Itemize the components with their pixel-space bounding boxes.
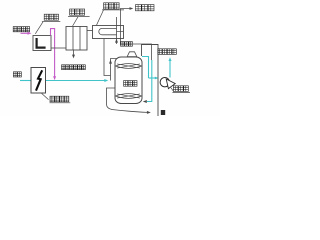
leader line to filter label — [42, 93, 49, 99]
cooling water pipe 1 (up arrow) — [115, 17, 118, 44]
cooling water top label — [136, 5, 142, 11]
purified air outlet (cyan, up arrow) — [169, 57, 172, 77]
dryer box B2 with stripes — [66, 27, 87, 51]
cyan branch to fan with arrow — [149, 77, 159, 80]
small dark block bottom right — [161, 110, 165, 115]
waste gas label — [13, 72, 17, 77]
dryer label (underlined) — [68, 9, 90, 17]
riser into tower top — [109, 59, 117, 81]
lower lens bed — [116, 94, 142, 99]
condenser header divider — [117, 31, 124, 33]
cyan tower top loop — [142, 57, 149, 79]
leader to fan label — [171, 88, 174, 92]
condenser inner tube — [99, 28, 117, 34]
wire dryer to condenser — [87, 30, 93, 32]
compressed air inlet label — [13, 27, 17, 32]
cooling water supply elbow — [133, 44, 152, 60]
filter label (underlined) — [50, 96, 71, 103]
filter box — [31, 68, 46, 94]
tower bottom drain curve — [107, 88, 151, 114]
leader line to dryer — [73, 17, 78, 26]
heater label (underlined) — [42, 14, 60, 21]
cooling water outlet pipe with arrow — [121, 7, 134, 44]
condenser shell B3 — [93, 26, 124, 39]
fan circle — [160, 78, 169, 87]
cyan cooling downcomer — [147, 60, 152, 102]
fan outlet wedge — [166, 79, 175, 89]
fan label (underlined) — [172, 86, 190, 93]
solvent recovery drain with arrow — [72, 50, 75, 58]
solvent recovery label — [62, 65, 66, 70]
filter lightning mark — [36, 70, 42, 90]
leader line to heater — [35, 22, 43, 34]
wire heater to dryer — [51, 47, 66, 49]
tower top gas pipe to fan line — [142, 45, 159, 117]
magenta inlet arrow — [21, 32, 32, 35]
cyan waste gas main line with arrow — [20, 79, 108, 82]
adsorption tower — [115, 57, 142, 104]
leader line to condenser — [97, 10, 104, 25]
heater box B1 — [33, 36, 51, 51]
tower label — [124, 81, 128, 87]
heater coil element — [37, 38, 46, 48]
condenser label (underlined) — [102, 3, 124, 10]
cooling water small label — [121, 42, 125, 47]
condenser drain pipe — [104, 39, 111, 76]
upper lens bed — [116, 64, 142, 69]
tower top cap — [127, 52, 137, 57]
arrow into tower bottom — [143, 100, 147, 103]
magenta pipe loop over heater — [51, 29, 57, 81]
purified air label — [158, 49, 162, 55]
